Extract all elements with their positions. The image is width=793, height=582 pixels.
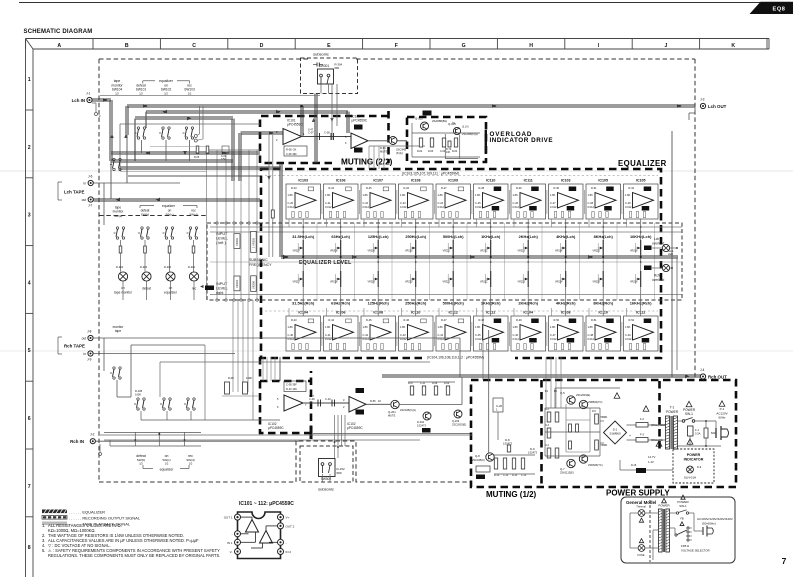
wire (482, 300, 484, 380)
svg-text:R-57: R-57 (408, 382, 414, 385)
transistor Q204 muting (486, 453, 494, 461)
wire (316, 223, 318, 300)
node general model divider (649, 500, 651, 562)
wire (127, 105, 695, 107)
svg-text:SW(b): SW(b) (137, 458, 146, 462)
svg-text:VR210: VR210 (405, 250, 413, 253)
svg-text:1KHz(Rch): 1KHz(Rch) (481, 301, 501, 306)
node voltage rails into power (546, 357, 561, 408)
node legend tape playback (42, 521, 131, 526)
svg-text:D-9: D-9 (697, 465, 702, 469)
wire (326, 219, 328, 227)
wire (150, 146, 206, 148)
op-amp IC108 Rch 4KHz (549, 311, 584, 352)
pot VR214 4KHz Lch (555, 240, 566, 256)
node OVERLOAD box (407, 117, 486, 162)
wire (619, 460, 621, 470)
pot VR216 16KHz Lch (630, 240, 641, 256)
svg-text:(IC104,106,108,110,112 : μPC4: (IC104,106,108,110,112 : μPC4559M) (427, 356, 484, 360)
wire (415, 256, 417, 271)
wire (340, 256, 342, 271)
wire (347, 112, 349, 133)
wire (588, 219, 590, 227)
svg-text:14.7V: 14.7V (648, 455, 655, 459)
svg-text:R-59: R-59 (444, 382, 450, 385)
wire (0, 170, 793, 172)
wire (207, 150, 258, 300)
wire (210, 231, 682, 233)
svg-text:R-62: R-62 (417, 150, 423, 153)
svg-text:F-1: F-1 (695, 428, 699, 432)
wire (646, 469, 673, 471)
wire (602, 256, 604, 271)
wire (689, 512, 694, 514)
capacitor C-04 (222, 146, 229, 153)
node J2 Rch IN jack (90, 439, 95, 444)
resistor R-63 (430, 138, 433, 147)
svg-text:IC103: IC103 (561, 179, 571, 183)
svg-text:R-31: R-31 (591, 186, 597, 190)
svg-text:1/2: 1/2 (188, 92, 192, 96)
wire (210, 261, 682, 263)
svg-text:C-43: C-43 (400, 333, 406, 337)
svg-text:2SC945(K): 2SC945(K) (472, 458, 485, 462)
svg-text:0.012: 0.012 (438, 205, 445, 209)
svg-text:C-08: C-08 (324, 131, 330, 135)
svg-text:1.8K: 1.8K (363, 193, 369, 197)
svg-text:1.8K: 1.8K (288, 325, 294, 329)
svg-text:+: + (629, 434, 631, 438)
wire (288, 219, 290, 227)
svg-text:in: in (84, 182, 87, 186)
op-amp IC110 Rch 250Hz (399, 311, 434, 352)
svg-text:VR207: VR207 (293, 250, 301, 253)
svg-text:2SD666(TC): 2SD666(TC) (588, 463, 603, 467)
svg-text:C-24: C-24 (438, 201, 444, 205)
svg-text:J-4: J-4 (700, 368, 705, 372)
node MUTING 2/2 box (260, 111, 389, 163)
LED D204 equalizer on (166, 272, 175, 281)
svg-text:0.012: 0.012 (550, 205, 557, 209)
svg-text:0.012: 0.012 (400, 205, 407, 209)
wire (146, 111, 348, 113)
svg-text:monitor: monitor (113, 210, 125, 214)
pot VR226 16KHz Rch (630, 271, 641, 287)
svg-text:V-: V- (230, 550, 233, 554)
switch on Rch (163, 398, 165, 400)
svg-text:C-08 39F: C-08 39F (286, 383, 297, 387)
svg-text:0.012: 0.012 (550, 337, 557, 341)
switch rec Rch (187, 398, 189, 400)
wire (566, 419, 590, 421)
transistor Q6 (579, 400, 587, 408)
wire (366, 403, 390, 405)
svg-text:10K: 10K (446, 151, 451, 154)
switch POWER SW-1 (682, 408, 696, 422)
op-amp IC104 Rch 2KHz (511, 311, 546, 352)
transistor Q7 (567, 459, 575, 467)
svg-text:1/2: 1/2 (165, 462, 169, 466)
svg-text:C-40: C-40 (288, 333, 294, 337)
node legend equalizer (42, 509, 105, 514)
wire (544, 408, 546, 456)
wire (265, 310, 658, 312)
wire (652, 247, 662, 249)
wire (354, 223, 356, 300)
svg-text:1/2: 1/2 (139, 462, 143, 466)
svg-text:subsonic: subsonic (313, 52, 329, 57)
wire (111, 160, 233, 162)
wire (676, 257, 678, 370)
svg-text:SUBSONIC: SUBSONIC (249, 258, 268, 262)
wire (145, 112, 147, 128)
wire (252, 392, 254, 420)
svg-text:C-25: C-25 (475, 201, 481, 205)
svg-text:T-1: T-1 (670, 406, 675, 410)
svg-text:SW103: SW103 (184, 88, 195, 92)
svg-text:C-13: C-13 (521, 474, 527, 477)
svg-text:EQ8: EQ8 (773, 7, 786, 13)
pot VR206 input level right (251, 276, 257, 292)
svg-text:0.012: 0.012 (475, 337, 482, 341)
switch defeat 2 (141, 227, 143, 229)
svg-text:overload: overload (652, 242, 664, 246)
wire (551, 308, 553, 316)
svg-text:1.8K: 1.8K (513, 193, 519, 197)
wire (695, 420, 716, 422)
svg-text:Q-203: Q-203 (452, 419, 460, 423)
wire (233, 300, 253, 392)
svg-text:IN 1: IN 1 (227, 541, 233, 545)
svg-text:1/2: 1/2 (164, 92, 168, 96)
svg-text:0.012: 0.012 (625, 205, 632, 209)
pot VR208 63Hz Lch (330, 240, 341, 256)
wire (93, 353, 235, 355)
svg-text:Rch OUT: Rch OUT (708, 375, 727, 380)
wire (111, 152, 260, 154)
wire (399, 404, 462, 406)
svg-text:0.012: 0.012 (325, 205, 332, 209)
svg-text:VR203: VR203 (235, 238, 239, 246)
wire (545, 431, 600, 433)
fusible resistor F-2 (636, 423, 648, 428)
wire (122, 281, 124, 300)
wire (302, 287, 304, 316)
wire (210, 226, 682, 228)
wire (589, 408, 591, 452)
LED D202 tape monitor (118, 272, 127, 281)
svg-text:LED: LED (668, 252, 673, 256)
wire (438, 219, 440, 227)
svg-text:C-11: C-11 (420, 382, 426, 385)
wire (369, 146, 384, 169)
svg-text:VR204: VR204 (235, 280, 239, 288)
zener D-5 (595, 414, 599, 424)
svg-text:C-48: C-48 (588, 333, 594, 337)
wire (444, 134, 446, 159)
svg-text:0.47: 0.47 (309, 394, 315, 398)
wire (110, 445, 201, 447)
wire (415, 287, 417, 316)
svg-text:C-10: C-10 (325, 397, 331, 401)
svg-text:R-13: R-13 (512, 474, 518, 477)
wire (120, 123, 260, 125)
svg-text:tape: tape (114, 79, 121, 83)
svg-text:1S2473: 1S2473 (417, 424, 427, 428)
svg-text:5: 5 (28, 348, 31, 354)
svg-text:MUTE: MUTE (380, 150, 388, 154)
wire (616, 223, 618, 300)
switch tape monitor Rch (113, 367, 115, 369)
svg-text:R-10 10K: R-10 10K (286, 387, 297, 391)
svg-text:F: F (395, 43, 398, 49)
svg-text:Rch: Rch (654, 274, 660, 278)
switch SW101 (137, 127, 139, 129)
wire (320, 84, 322, 94)
wire (461, 377, 463, 405)
op-amp IC112 Rch 16KHz (624, 311, 659, 352)
svg-text:R-29: R-29 (516, 186, 522, 190)
svg-text:VR226: VR226 (630, 281, 638, 284)
wire (202, 106, 204, 139)
svg-text:0.3A: 0.3A (695, 432, 701, 436)
svg-text:1.8K: 1.8K (588, 325, 594, 329)
svg-text:0.012: 0.012 (363, 205, 370, 209)
node lower muting box (260, 357, 311, 433)
svg-text:Rch TAPE: Rch TAPE (64, 344, 85, 349)
svg-text:0.012: 0.012 (475, 205, 482, 209)
fusible resistor F-3 (636, 438, 648, 443)
svg-text:D-5: D-5 (592, 410, 597, 413)
node muting/power divider (540, 380, 543, 487)
node input level arrow (200, 285, 204, 288)
svg-text:1K: 1K (378, 399, 381, 403)
wire (627, 424, 667, 426)
svg-text:3: 3 (28, 213, 31, 219)
plug general (703, 526, 713, 537)
svg-text:R-28: R-28 (479, 186, 485, 190)
op-amp IC106 Lch 63Hz (324, 179, 359, 220)
svg-text:(3.1V): (3.1V) (462, 126, 469, 129)
svg-text:FREQUENCY: FREQUENCY (249, 263, 272, 267)
svg-text:VOLTAGE SELECTOR: VOLTAGE SELECTOR (681, 549, 710, 553)
wire (103, 338, 105, 371)
wire (602, 219, 604, 240)
wire (279, 357, 281, 381)
resistor R-13 (512, 458, 515, 469)
wire (391, 223, 393, 300)
LED D102 Rch overload (662, 264, 669, 271)
svg-text:1.8K: 1.8K (625, 193, 631, 197)
svg-text:(White) 120Ω: (White) 120Ω (651, 424, 665, 427)
svg-text:1/2: 1/2 (139, 92, 143, 96)
resistor R-2 (547, 412, 551, 422)
wire (134, 119, 136, 162)
wire (165, 140, 167, 161)
wire (263, 357, 275, 381)
wire (326, 308, 328, 316)
svg-text:J-1: J-1 (86, 92, 91, 96)
node power inner divider (658, 381, 661, 450)
svg-text:-: - (232, 532, 233, 536)
svg-text:1S2473: 1S2473 (528, 451, 538, 455)
svg-text:Q-8: Q-8 (475, 454, 480, 458)
wire (160, 361, 430, 363)
svg-text:IC108: IC108 (411, 179, 421, 183)
resistor 820 (704, 428, 708, 438)
svg-text:1 VR205: 1 VR205 (252, 237, 256, 248)
wire (104, 432, 201, 434)
svg-text:D-204: D-204 (417, 420, 425, 424)
svg-text:Lch OUT: Lch OUT (708, 104, 727, 109)
warning triangle (614, 393, 620, 398)
switch SW104 (113, 158, 115, 160)
svg-text:1.8K: 1.8K (550, 193, 556, 197)
svg-text:2SA888(BL): 2SA888(BL) (432, 119, 447, 123)
transistor Q103 (453, 127, 460, 134)
resistor network R108 (225, 382, 230, 394)
op-amp IC102a lower (268, 381, 307, 430)
wire (368, 140, 407, 142)
svg-text:C-29: C-29 (625, 201, 631, 205)
svg-text:VR220: VR220 (405, 281, 413, 284)
wire (119, 124, 121, 171)
svg-text:B: B (125, 43, 129, 49)
svg-text:VR209: VR209 (368, 250, 376, 253)
op-amp IC110 Lch 1KHz (474, 179, 509, 220)
switch tape monitor 2 (116, 227, 118, 229)
wire (527, 219, 529, 240)
svg-text:IC105: IC105 (636, 179, 646, 183)
wire (280, 164, 282, 258)
wire (466, 223, 468, 300)
wire (653, 529, 659, 531)
svg-text:( left ): ( left ) (216, 241, 226, 245)
svg-text:R-58: R-58 (432, 382, 438, 385)
svg-text:S1WB60: S1WB60 (609, 432, 620, 436)
svg-text:VR225: VR225 (593, 281, 601, 284)
svg-text:R-50: R-50 (554, 318, 560, 322)
switch on 2 (165, 227, 167, 229)
svg-text:0.47: 0.47 (308, 128, 314, 132)
svg-text:7: 7 (28, 484, 31, 490)
svg-text:OUT 1: OUT 1 (224, 516, 233, 520)
svg-text:C-23: C-23 (400, 201, 406, 205)
op-amp IC104 Rch 31.5Hz (286, 311, 321, 352)
switch SW102 (162, 127, 164, 129)
svg-text:V+: V+ (286, 516, 290, 520)
wire (545, 455, 600, 457)
op-amp IC103 Lch 31.5Hz (286, 179, 321, 220)
switch SW502 subsonic (319, 459, 336, 477)
wire (340, 219, 342, 240)
wire (476, 219, 478, 227)
wire (126, 135, 128, 183)
wire (689, 527, 692, 529)
wire (565, 219, 567, 240)
node equalizer level box (207, 223, 682, 300)
resistor R-58 (422, 386, 425, 395)
wire (565, 404, 567, 452)
svg-text:INDICATOR: INDICATOR (684, 458, 704, 462)
wire (241, 132, 284, 134)
wire (363, 219, 365, 227)
node J9 Rch TAPE in jack (88, 351, 93, 356)
wire (629, 513, 631, 548)
svg-text:F-2: F-2 (640, 417, 644, 421)
svg-text:C-21: C-21 (325, 201, 331, 205)
wire (705, 421, 707, 428)
wire (588, 308, 590, 316)
op-amp IC105 Lch 16KHz (624, 179, 659, 220)
svg-text:C-42: C-42 (363, 333, 369, 337)
op-amp IC101 muting (276, 119, 307, 157)
resistor R-6 (555, 448, 559, 458)
wire (626, 219, 628, 227)
svg-text:100K: 100K (246, 376, 252, 380)
LED D-201 power (687, 466, 694, 473)
wire (640, 287, 642, 316)
wire (130, 345, 132, 397)
wire (204, 345, 206, 420)
svg-text:R-46: R-46 (404, 318, 410, 322)
wire (189, 140, 191, 161)
node row numbers (26, 77, 34, 551)
wire (626, 308, 628, 316)
node subsonic box bottom (300, 446, 353, 482)
svg-text:VR224: VR224 (555, 281, 563, 284)
capacitor C-07 (316, 133, 318, 140)
svg-text:(K)(L): (K)(L) (396, 151, 403, 155)
svg-text:1.8K: 1.8K (400, 193, 406, 197)
wire (363, 308, 365, 316)
svg-text:2SA1115(E): 2SA1115(E) (560, 471, 574, 475)
svg-text:VR216: VR216 (630, 250, 638, 253)
resistor R-5 (555, 412, 559, 422)
svg-text:R-3: R-3 (545, 424, 550, 427)
svg-text:VR208: VR208 (330, 250, 338, 253)
svg-text:IC103: IC103 (298, 179, 308, 183)
op-amp IC109 Lch 500Hz (436, 179, 471, 220)
node nest arrows (110, 134, 114, 138)
svg-text:R-26: R-26 (404, 186, 410, 190)
svg-text:R-45: R-45 (366, 318, 372, 322)
svg-text:HZ6B1: HZ6B1 (600, 444, 608, 447)
svg-text:C-12: C-12 (503, 474, 509, 477)
transistor Q8 power (579, 455, 587, 463)
wire (513, 219, 515, 227)
svg-text:R-08: R-08 (228, 376, 234, 380)
pot VR225 8KHz Rch (593, 271, 604, 287)
pot VR224 4KHz Rch (555, 271, 566, 287)
svg-text:equalizer: equalizer (162, 204, 176, 208)
wire (334, 446, 336, 482)
diode D-8 (507, 445, 510, 452)
wire (322, 190, 622, 346)
warning triangle (686, 401, 692, 406)
LED D203 defeat (142, 272, 151, 281)
pot VR221 500Hz Rch (443, 271, 454, 287)
wire (630, 512, 638, 514)
svg-text:1.8K: 1.8K (550, 325, 556, 329)
node J6 Lch TAPE in jack (88, 180, 93, 185)
svg-text:1.4V: 1.4V (648, 460, 654, 464)
svg-text:D-202: D-202 (164, 265, 172, 269)
wire (459, 338, 461, 377)
svg-text:J-7: J-7 (88, 204, 93, 208)
svg-text:C-41: C-41 (325, 333, 331, 337)
wire (110, 161, 112, 200)
